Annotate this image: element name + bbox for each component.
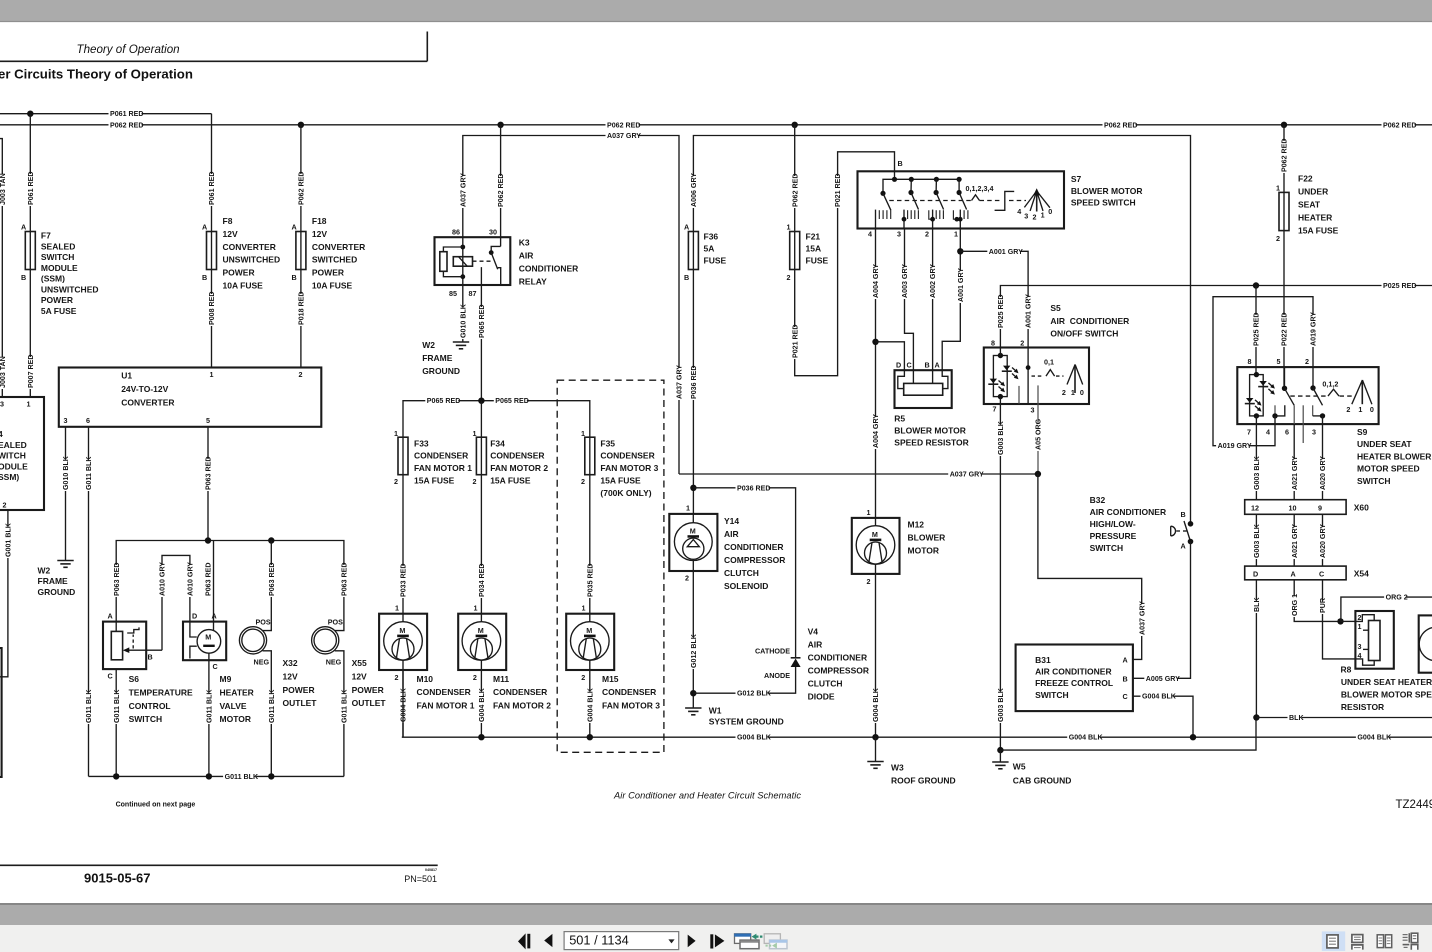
S9 center stub [1302,405,1304,443]
svg-text:D: D [896,361,901,370]
motor M9 heater valve [183,622,226,661]
svg-text:ODULE: ODULE [0,461,28,471]
svg-text:2: 2 [473,673,477,682]
S5 LED 1 [1003,366,1010,371]
fuse F36 [692,232,694,270]
node junction P036/V4 [690,485,696,491]
svg-text:87: 87 [469,289,477,298]
wire A020 GRY S9 pin3 to X60 [1322,424,1324,500]
svg-text:RESISTOR: RESISTOR [1341,702,1384,712]
svg-text:F35: F35 [600,438,615,448]
svg-text:A: A [212,612,217,621]
solenoid Y14 air conditioner compressor clutch [692,514,694,523]
svg-text:A: A [935,361,940,370]
wire G012 BLK Y14 pin2 to system ground [692,559,694,707]
svg-text:MOTOR: MOTOR [908,546,939,556]
S5 LED 2 [990,379,997,384]
svg-text:A: A [1291,570,1296,579]
svg-text:V4: V4 [808,627,819,637]
svg-text:2: 2 [473,477,477,486]
wire PUR X54-C to R8 pin 4 [1323,580,1356,659]
wire P021 RED F21 to S7 pin B [795,152,895,376]
svg-text:F36: F36 [704,232,719,242]
svg-text:FAN MOTOR 1: FAN MOTOR 1 [417,700,475,710]
wire M9 A into motor [213,623,215,631]
node junction G011/M9 [206,773,212,779]
svg-text:AIR CONDITIONER: AIR CONDITIONER [1050,316,1129,326]
svg-text:2: 2 [395,673,399,682]
wire G011 BLK ground bus [89,775,344,777]
connector X54 [1245,566,1346,580]
svg-text:B31: B31 [1035,655,1051,665]
svg-text:G004 BLK: G004 BLK [1142,693,1177,701]
wire P063 RED distribution bus [116,541,344,626]
switch S7 blower motor speed switch [858,171,1065,228]
svg-text:040817: 040817 [425,868,437,872]
wire G001 BLK from SSM pin 2 [0,510,8,677]
svg-text:1: 1 [27,400,31,409]
svg-text:4: 4 [868,230,872,239]
svg-text:W1: W1 [709,706,722,716]
svg-text:1: 1 [787,223,791,232]
svg-text:UNDER SEAT HEATER: UNDER SEAT HEATER [1341,677,1432,687]
svg-text:A001 GRY: A001 GRY [957,268,965,302]
S5 stub contacts [1018,386,1020,404]
motor symbol M10 [384,622,423,661]
svg-text:G004 BLK: G004 BLK [586,687,594,722]
svg-text:A: A [684,223,689,232]
connector cut off at lower left edge [0,648,2,777]
svg-text:UNDER SEAT: UNDER SEAT [1357,439,1412,449]
svg-text:1: 1 [1276,184,1280,193]
svg-text:A001 GRY: A001 GRY [989,248,1023,256]
wire P022 RED F22 to S9 pin 5 [1283,231,1285,389]
svg-text:0,1,2,3,4: 0,1,2,3,4 [966,184,994,193]
svg-text:W3: W3 [891,763,904,773]
svg-text:P025 RED: P025 RED [997,294,1005,328]
motor under seat heater blower (cut at edge) [1419,615,1432,672]
svg-text:B: B [202,273,207,282]
ground symbol W5 cab ground [992,761,1008,763]
fuse F8 [211,232,213,270]
motor M11 condenser fan [458,614,506,670]
wire P062 RED to F22 [1283,125,1285,193]
svg-text:POWER: POWER [283,685,315,695]
svg-text:1: 1 [1041,211,1045,220]
K3 switch contact [491,246,500,252]
svg-text:CONTROL: CONTROL [129,701,171,711]
wire A001 GRY branch to S5 pin 2 [960,251,1028,347]
S9 LED 1 [1259,381,1266,386]
svg-text:P065 RED: P065 RED [495,397,529,405]
svg-text:AIR CONDITIONER: AIR CONDITIONER [1090,507,1167,517]
svg-text:HIGH/LOW-: HIGH/LOW- [1090,519,1136,529]
svg-text:P061 RED: P061 RED [208,171,216,205]
svg-text:B: B [21,273,26,282]
svg-text:A005 GRY: A005 GRY [1146,675,1180,683]
svg-text:6: 6 [86,416,90,425]
svg-text:C: C [108,672,113,681]
wire A006 GRY rail to F36 [693,136,1190,524]
node junction P062/F21 [792,122,798,128]
svg-text:5A FUSE: 5A FUSE [41,306,77,316]
wire G003 BLK S9 pin7 to X60 [1255,416,1257,500]
wire P007 RED F7 to SSM [29,270,31,398]
svg-text:G011 BLK: G011 BLK [268,689,276,723]
svg-text:P062 RED: P062 RED [1281,138,1289,172]
svg-text:2: 2 [1020,339,1024,348]
wire A003 GRY S7 pin3 to R5 pin C [905,229,914,384]
svg-text:C: C [1319,570,1324,579]
svg-text:POWER: POWER [41,295,73,305]
svg-text:BLOWER MOTOR SPEED: BLOWER MOTOR SPEED [1341,689,1432,699]
motor symbol M11 [462,622,501,661]
svg-text:AIR: AIR [808,640,823,650]
svg-text:P036 RED: P036 RED [737,484,771,492]
diode V4 air conditioner compressor clutch diode [791,657,801,659]
svg-text:MOTOR SPEED: MOTOR SPEED [1357,464,1420,474]
svg-text:G004 BLK: G004 BLK [737,734,772,742]
svg-text:G003 BLK: G003 BLK [1253,523,1261,558]
svg-text:PRESSURE: PRESSURE [1090,531,1137,541]
svg-text:AIR: AIR [724,529,739,539]
svg-text:B: B [1123,674,1128,683]
svg-text:COMPRESSOR: COMPRESSOR [808,666,869,676]
wire P061 RED to F7 [29,114,31,232]
svg-text:POWER: POWER [312,268,344,278]
svg-text:P062 RED: P062 RED [1104,121,1138,129]
svg-text:POS: POS [328,618,343,627]
connector X60 [1245,500,1346,515]
converter U1 [59,368,322,427]
svg-text:Theory of Operation: Theory of Operation [77,43,180,56]
svg-text:FUSE: FUSE [704,256,727,266]
S5 pin 2 lead [1027,348,1029,405]
svg-text:P061 RED: P061 RED [110,110,144,118]
svg-text:ANODE: ANODE [764,671,790,680]
wire P025 RED to S9 pin 8 [1255,286,1257,374]
svg-text:C: C [1123,692,1128,701]
wire G010 BLK U1 pin3 to frame ground [65,427,67,560]
svg-text:SWITCH: SWITCH [1090,543,1124,553]
svg-text:FAN MOTOR 1: FAN MOTOR 1 [414,463,472,473]
svg-text:A037 GRY: A037 GRY [676,365,684,399]
svg-text:G011 BLK: G011 BLK [225,773,259,781]
next view icon (disabled) [764,934,780,944]
svg-text:BLOWER MOTOR: BLOWER MOTOR [1071,186,1143,196]
svg-text:P025 RED: P025 RED [1383,282,1417,290]
svg-text:2: 2 [299,370,303,379]
svg-text:P065 RED: P065 RED [427,397,461,405]
motor symbol M12 [856,526,895,565]
svg-text:3: 3 [897,230,901,239]
svg-text:FAN MOTOR 3: FAN MOTOR 3 [602,700,660,710]
fuse F35 [589,437,591,475]
svg-text:CLUTCH: CLUTCH [724,568,759,578]
svg-text:M: M [872,530,878,539]
node junction P062/F18 [298,122,304,128]
wire P036 RED branch to diode V4 [693,488,795,658]
svg-text:OUTLET: OUTLET [283,698,318,708]
svg-text:POS: POS [256,618,271,627]
S6 potentiometer [111,631,122,659]
outlet X55 12V power outlet [312,627,339,654]
svg-text:A004 GRY: A004 GRY [872,414,880,448]
svg-text:A: A [21,223,26,232]
svg-text:PN=501: PN=501 [404,874,437,884]
svg-text:W2: W2 [38,566,51,576]
svg-text:A020 GRY: A020 GRY [1319,524,1327,558]
svg-text:2: 2 [1305,357,1309,366]
K3 dashed actuator line [473,260,491,262]
node junction G004/M15 [587,734,593,740]
svg-text:P036 RED: P036 RED [690,365,698,399]
svg-text:7: 7 [1247,428,1251,437]
svg-text:P034 RED: P034 RED [478,563,486,597]
svg-text:9015-05-67: 9015-05-67 [84,871,151,886]
node junction W5 [997,747,1003,753]
svg-text:COMPRESSOR: COMPRESSOR [724,555,785,565]
svg-text:30: 30 [489,228,497,237]
svg-text:ON/OFF SWITCH: ON/OFF SWITCH [1050,329,1118,339]
svg-text:P033 RED: P033 RED [400,563,408,597]
svg-text:BLOWER MOTOR: BLOWER MOTOR [894,426,966,436]
svg-text:P065 RED: P065 RED [478,304,486,338]
ground symbol W2 frame ground (center) [453,341,469,343]
svg-text:SWITCHED: SWITCHED [312,255,357,265]
svg-text:SWITCH: SWITCH [1357,476,1391,486]
svg-text:CONDENSER: CONDENSER [493,687,547,697]
layout continuous facing [1408,933,1410,942]
wire A004 GRY S7 pin4 to M12 pin 1 [875,229,877,518]
wire G004 BLK ground bus [402,736,1432,738]
wire P062 RED to K3 pin 30 [500,125,502,247]
wire P063 RED drop to M9 A [213,541,215,623]
layout continuous [1352,935,1363,943]
svg-text:A: A [292,223,297,232]
wire ORG 2 from right edge [1341,597,1432,621]
node junction P063/X32 [268,537,274,543]
svg-text:ROOF GROUND: ROOF GROUND [891,776,956,786]
svg-text:5A: 5A [704,244,715,254]
svg-text:15A FUSE: 15A FUSE [600,476,641,486]
svg-text:A002 GRY: A002 GRY [929,264,937,298]
svg-text:Y14: Y14 [724,516,739,526]
wire P061 RED top rail [0,113,212,115]
svg-text:CLUTCH: CLUTCH [808,679,843,689]
svg-text:15A FUSE: 15A FUSE [414,476,455,486]
ground symbol W1 system ground [685,707,701,709]
S7 selector fan [1024,191,1036,207]
svg-text:S5: S5 [1050,303,1061,313]
svg-text:A010 GRY: A010 GRY [159,562,167,596]
svg-text:G001 BLK: G001 BLK [5,522,13,557]
node junction G004/M12-W3 [872,734,878,740]
node junction A004/R5-D [872,339,878,345]
svg-text:K3: K3 [519,238,530,248]
svg-text:2: 2 [1033,213,1037,222]
svg-text:P063 RED: P063 RED [341,562,349,596]
svg-text:BLOWER: BLOWER [908,533,946,543]
svg-text:er Circuits Theory of Operatio: er Circuits Theory of Operation [0,67,193,82]
S6 wiper arrow from B [129,649,163,651]
relay K3 air conditioner relay [435,237,511,285]
svg-text:B: B [292,273,297,282]
svg-text:4: 4 [0,429,3,439]
motor symbol M15 [571,622,610,661]
svg-text:3: 3 [1031,406,1035,415]
svg-text:G011 BLK: G011 BLK [341,689,349,723]
wire P062 RED top rail [0,124,1432,126]
svg-text:2: 2 [1358,613,1362,622]
nav first: triangle+bar [518,933,526,949]
svg-text:M: M [478,626,484,635]
svg-text:A037 GRY: A037 GRY [950,471,984,479]
bottom toolbar [0,903,1432,905]
svg-text:B: B [684,273,689,282]
node junction P062/F22 [1281,122,1287,128]
wire BLK X54-D down [1255,580,1257,718]
svg-text:SWITCH: SWITCH [41,252,75,262]
svg-text:DIODE: DIODE [808,692,835,702]
wire A002 GRY S7 pin2 to R5 pin B [932,229,934,384]
svg-text:FREEZE CONTROL: FREEZE CONTROL [1035,678,1113,688]
svg-text:1: 1 [1071,388,1075,397]
svg-text:P018 RED: P018 RED [298,291,306,325]
wire P018 RED F18 to U1 pin 2 [300,270,302,368]
wire P034 RED F34 to M11 [480,475,482,614]
svg-text:B: B [925,361,930,370]
svg-text:B: B [898,159,903,168]
svg-text:P061 RED: P061 RED [27,171,35,205]
wire G011 BLK M9 C to bus [208,653,210,776]
svg-text:2: 2 [394,477,398,486]
svg-text:NEG: NEG [326,658,342,667]
svg-text:M: M [205,632,211,641]
svg-text:ORG 2: ORG 2 [1386,594,1408,602]
module H4 sealed switch module (SSM) [0,397,44,510]
svg-text:S7: S7 [1071,174,1082,184]
svg-text:P062 RED: P062 RED [110,121,144,129]
svg-text:POWER: POWER [223,268,255,278]
svg-text:1: 1 [582,604,586,613]
S9 indicator rail [1250,375,1264,416]
svg-text:BLK: BLK [1253,597,1261,612]
svg-text:2: 2 [1346,405,1350,414]
svg-text:(SSM): (SSM) [41,274,65,284]
svg-text:J003 TAN: J003 TAN [0,356,7,388]
node junction G011/X32 [268,773,274,779]
svg-text:GROUND: GROUND [38,587,76,597]
svg-text:G011 BLK: G011 BLK [113,689,121,723]
wire G004 BLK B31 pin C to bus [1133,696,1193,737]
svg-text:G011 BLK: G011 BLK [206,689,214,723]
svg-text:M11: M11 [493,674,509,684]
wire A037 GRY K3 pin 86 riser [463,136,679,475]
wire P025 RED rail [1000,286,1432,348]
S7 mechanical dashed link [889,200,971,202]
svg-text:P063 RED: P063 RED [113,562,121,596]
wire P061 RED down to F8 [211,114,213,232]
S9 selector [1352,380,1363,404]
svg-text:P021 RED: P021 RED [791,324,799,358]
svg-text:Continued on next page: Continued on next page [116,802,196,809]
svg-text:B: B [1181,510,1186,519]
svg-text:0: 0 [1370,405,1374,414]
svg-text:VALVE: VALVE [220,701,247,711]
svg-text:OUTLET: OUTLET [352,698,387,708]
svg-text:F34: F34 [490,438,505,448]
svg-text:FRAME: FRAME [38,576,69,586]
svg-text:G012 BLK: G012 BLK [690,633,698,668]
svg-text:SEALED: SEALED [41,241,75,251]
svg-text:A: A [1181,542,1186,551]
svg-text:A006 GRY: A006 GRY [690,173,698,207]
svg-text:ORG 1: ORG 1 [1291,594,1299,616]
svg-text:P062 RED: P062 RED [791,173,799,207]
svg-text:PUR: PUR [1319,598,1327,613]
switch S6 temperature control [115,615,117,631]
S9 switch 5-6 [1284,367,1286,388]
svg-text:W5: W5 [1013,762,1026,772]
svg-text:FAN MOTOR 3: FAN MOTOR 3 [600,463,658,473]
svg-text:2: 2 [1276,234,1280,243]
svg-text:0: 0 [1080,388,1084,397]
node junction ORG1/ORG2 [1337,618,1343,624]
svg-text:F8: F8 [223,216,233,226]
node junction P062/K3-30 [497,122,503,128]
fuse F7 [29,232,31,270]
resistor R5 blower motor speed resistor [895,370,952,408]
svg-text:CONDITIONER: CONDITIONER [724,542,784,552]
svg-text:A: A [108,612,113,621]
svg-text:A037 GRY: A037 GRY [459,173,467,207]
svg-text:M12: M12 [908,520,925,530]
svg-text:A019 GRY: A019 GRY [1310,312,1318,346]
svg-text:P063 RED: P063 RED [268,562,276,596]
svg-text:R5: R5 [894,414,905,424]
dashed option box 700K ONLY [557,380,664,752]
S9 switch 2-3 [1312,367,1314,388]
page box [564,932,679,950]
svg-text:8: 8 [991,339,995,348]
wires X60 to X54 [1255,514,1257,566]
svg-text:SPEED RESISTOR: SPEED RESISTOR [894,438,968,448]
svg-text:P062 RED: P062 RED [1383,121,1417,129]
svg-text:G010 BLK: G010 BLK [62,455,70,490]
svg-text:A021 GRY: A021 GRY [1291,524,1299,558]
svg-text:G010 BLK: G010 BLK [459,303,467,338]
svg-text:P062 RED: P062 RED [497,173,505,207]
svg-text:2: 2 [581,477,585,486]
svg-text:CATHODE: CATHODE [755,646,790,655]
wire P035 RED F35 to M15 [589,475,591,614]
svg-text:A021 GRY: A021 GRY [1291,456,1299,490]
svg-text:NEG: NEG [254,658,270,667]
svg-text:P007 RED: P007 RED [27,354,35,388]
nav last: bar+triangle [710,934,713,948]
wire P063 RED drop to X32 POS [270,541,272,631]
svg-text:10A FUSE: 10A FUSE [223,281,264,291]
node junction P025/S9 [1253,282,1259,288]
svg-text:M10: M10 [417,674,434,684]
svg-text:1: 1 [395,604,399,613]
wire P063 RED U1 pin5 to P063 bus [207,427,209,541]
svg-text:S6: S6 [129,674,140,684]
svg-text:24V-TO-12V: 24V-TO-12V [121,384,168,394]
svg-text:CONDENSER: CONDENSER [490,451,544,461]
node junction P065/K3-87 [478,398,484,404]
